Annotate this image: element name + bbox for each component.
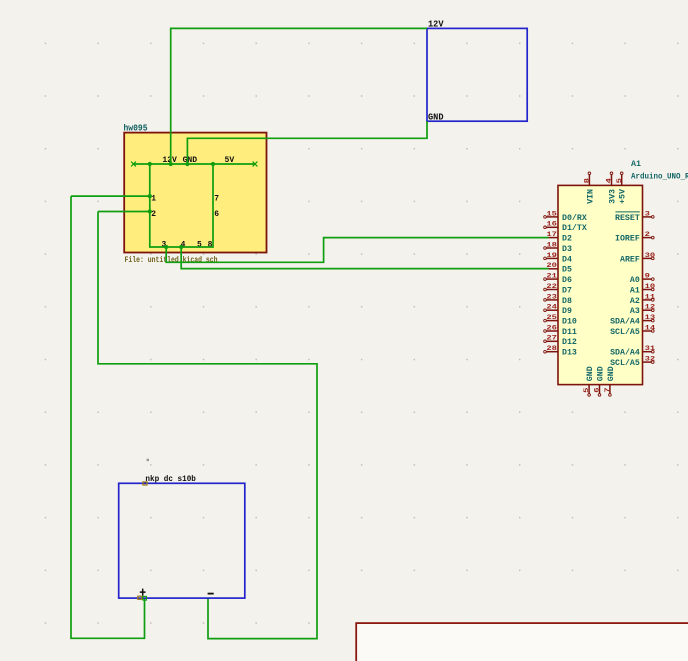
svg-text:GND: GND — [428, 112, 444, 123]
svg-text:13: 13 — [645, 314, 656, 322]
svg-text:D3: D3 — [562, 245, 572, 254]
svg-text:D10: D10 — [562, 318, 577, 327]
svg-text:A2: A2 — [630, 297, 640, 306]
sheet hw095 — [124, 133, 266, 253]
svg-text:15: 15 — [546, 210, 557, 218]
sheet nkp dc s10b — [119, 483, 245, 598]
svg-text:2: 2 — [151, 209, 156, 219]
svg-text:12: 12 — [645, 304, 656, 312]
pin 18 D3 — [544, 241, 572, 254]
pin 17 D2 — [546, 231, 572, 244]
pin 4 3V3 — [606, 172, 618, 204]
junction 12V — [169, 162, 173, 166]
svg-text:SDA/A4: SDA/A4 — [610, 349, 640, 358]
svg-text:VIN: VIN — [586, 189, 595, 204]
pin 11 A2 — [630, 293, 655, 306]
pin 7 GND bottom — [604, 366, 616, 396]
svg-text:17: 17 — [546, 231, 557, 239]
svg-text:RESET: RESET — [615, 214, 640, 223]
svg-text:31: 31 — [645, 345, 656, 353]
pin 3 RESET — [615, 210, 654, 223]
pin 24 D9 — [544, 304, 572, 317]
svg-text:SDA/A4: SDA/A4 — [610, 318, 640, 327]
svg-text:27: 27 — [546, 335, 557, 343]
pin 23 D8 — [544, 293, 572, 306]
svg-text:8: 8 — [584, 178, 592, 183]
svg-text:30: 30 — [645, 252, 656, 260]
svg-text:nkp dc s10b: nkp dc s10b — [145, 474, 196, 484]
wire pin4 to D5 — [181, 247, 548, 269]
pin 8 VIN — [584, 172, 596, 204]
pin 31 SDA/A4 — [610, 345, 655, 358]
wire battery minus — [98, 212, 317, 639]
svg-text:D0/RX: D0/RX — [562, 214, 587, 223]
svg-text:24: 24 — [546, 304, 557, 312]
pin 13 SDA/A4 — [610, 314, 655, 327]
junction pin3 — [164, 245, 168, 249]
pin 15 D0/RX — [544, 210, 587, 223]
pin 30 AREF — [620, 252, 655, 265]
pin 21 D6 — [544, 273, 572, 286]
svg-text:3V3: 3V3 — [608, 189, 617, 204]
svg-text:D4: D4 — [562, 255, 572, 264]
wire 12V net — [171, 28, 427, 164]
pin 10 A1 — [630, 283, 655, 296]
pin 9 A0 — [630, 273, 654, 286]
dangling end left — [131, 162, 136, 167]
svg-text:11: 11 — [645, 293, 656, 301]
pin 19 D4 — [544, 252, 572, 265]
svg-text:+5V: +5V — [619, 189, 628, 204]
wire pin2 stub — [98, 211, 150, 213]
pin 28 D13 — [544, 345, 577, 358]
svg-text:8: 8 — [208, 240, 213, 250]
svg-text:6: 6 — [594, 388, 602, 393]
pin 32 SCL/A5 — [610, 356, 655, 369]
svg-text:A1: A1 — [631, 160, 641, 169]
svg-text:14: 14 — [645, 324, 656, 332]
svg-text:22: 22 — [546, 283, 557, 291]
pin 26 D11 — [544, 324, 577, 337]
svg-text:5: 5 — [583, 388, 591, 393]
svg-text:File: untitled.kicad_sch: File: untitled.kicad_sch — [125, 256, 218, 265]
svg-text:D2: D2 — [562, 235, 572, 244]
wire battery plus — [71, 196, 145, 638]
pin 22 D7 — [544, 283, 572, 296]
svg-text:4: 4 — [606, 178, 614, 183]
svg-text:5: 5 — [197, 240, 202, 250]
wire supply bus — [134, 163, 256, 165]
svg-text:D12: D12 — [562, 338, 577, 347]
junction pin2 — [148, 209, 152, 213]
svg-text:2: 2 — [645, 231, 650, 239]
svg-text:GND: GND — [586, 366, 595, 381]
svg-text:20: 20 — [546, 262, 557, 270]
svg-text:3: 3 — [645, 210, 650, 218]
svg-text:25: 25 — [546, 314, 557, 322]
svg-text:1: 1 — [151, 193, 156, 203]
pin 6 GND bottom — [594, 366, 606, 396]
svg-text:D8: D8 — [562, 297, 572, 306]
svg-text:7: 7 — [214, 193, 219, 203]
svg-text:GND: GND — [596, 366, 605, 381]
plus wire end marker — [143, 596, 147, 600]
pin 5 +5V — [616, 172, 628, 204]
symbol body Arduino A1 — [558, 185, 643, 384]
junction GND — [185, 162, 189, 166]
svg-text:D1/TX: D1/TX — [562, 224, 587, 233]
svg-text:D6: D6 — [562, 276, 572, 285]
svg-text:10: 10 — [645, 283, 656, 291]
svg-text:21: 21 — [546, 273, 557, 281]
svg-text:IOREF: IOREF — [615, 235, 640, 244]
svg-text:GND: GND — [607, 366, 616, 381]
svg-text:D5: D5 — [562, 266, 572, 275]
pin 27 D12 — [544, 335, 577, 348]
wire hw095 inner loop — [150, 164, 213, 247]
pin 25 D10 — [544, 314, 577, 327]
svg-text:Arduino_UNO_R3: Arduino_UNO_R3 — [631, 173, 688, 182]
svg-text:D13: D13 — [562, 349, 577, 358]
svg-text:AREF: AREF — [620, 255, 640, 264]
plus pin label — [140, 589, 146, 596]
pin 2 IOREF — [615, 231, 654, 244]
svg-text:9: 9 — [645, 273, 650, 281]
svg-text:hw095: hw095 — [124, 124, 148, 134]
junction bus-left — [148, 162, 152, 166]
svg-text:A3: A3 — [630, 307, 640, 316]
pin 16 D1/TX — [544, 221, 587, 234]
wire pin3 to D2 — [166, 238, 548, 263]
pin 12 A3 — [630, 304, 655, 317]
svg-text:D9: D9 — [562, 307, 572, 316]
junction pin4 — [179, 245, 183, 249]
svg-text:26: 26 — [546, 324, 557, 332]
wire pin1 stub — [71, 195, 150, 197]
svg-text:5: 5 — [616, 178, 624, 183]
plus pin anchor marker — [138, 596, 142, 599]
minus pin label — [208, 593, 214, 595]
junction bus-right — [211, 162, 215, 166]
svg-text:7: 7 — [604, 388, 612, 393]
svg-text:D11: D11 — [562, 328, 577, 337]
svg-text:18: 18 — [546, 241, 557, 249]
pin 14 SCL/A5 — [610, 324, 655, 337]
svg-text:23: 23 — [546, 293, 557, 301]
svg-text:12V: 12V — [428, 18, 444, 29]
svg-text:A1: A1 — [630, 286, 640, 295]
junction pin1 — [148, 194, 152, 198]
pin 5 GND bottom — [583, 366, 595, 396]
svg-text:6: 6 — [214, 209, 219, 219]
svg-text:19: 19 — [546, 252, 557, 260]
svg-text:SCL/A5: SCL/A5 — [610, 328, 640, 337]
sheet bottom right — [356, 623, 688, 661]
sheet power supply box — [427, 28, 527, 121]
pin 20 D5 — [546, 262, 572, 275]
svg-text:16: 16 — [546, 221, 557, 229]
svg-text:28: 28 — [546, 345, 557, 353]
dangling end right — [253, 162, 258, 167]
svg-text:D7: D7 — [562, 286, 572, 295]
marker gray dot — [147, 459, 149, 461]
svg-text:A0: A0 — [630, 276, 640, 285]
svg-text:32: 32 — [645, 356, 656, 364]
sheet name anchor marker — [143, 482, 147, 485]
wire GND net — [187, 121, 427, 164]
